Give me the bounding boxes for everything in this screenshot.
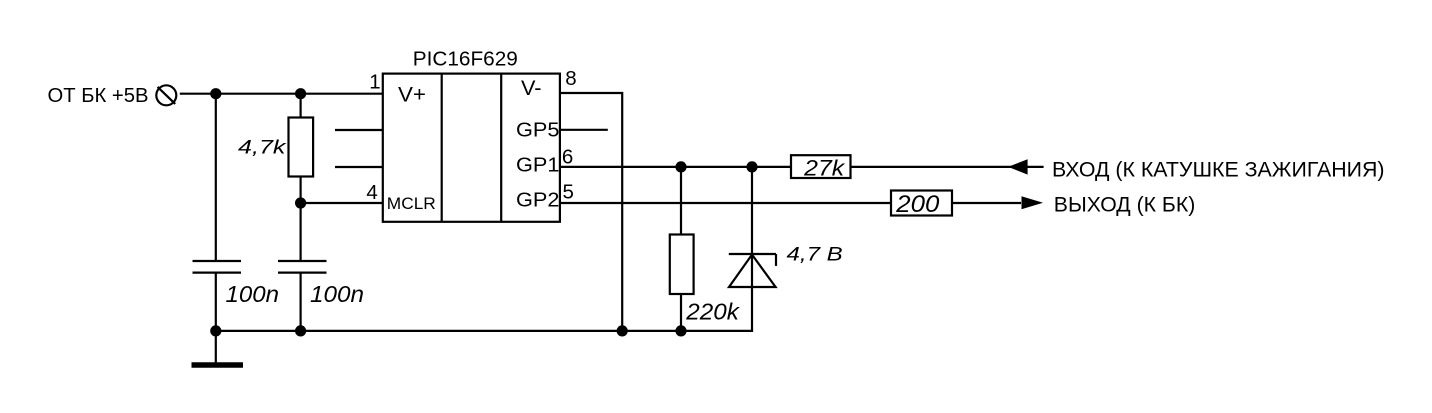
wire: bottom ground rail bbox=[216, 330, 753, 332]
wire: vertical from GP1 junction down to R3 220k bbox=[680, 167, 682, 235]
ground symbol bbox=[192, 331, 244, 365]
svg-text:GP2: GP2 bbox=[516, 188, 560, 211]
wire: GP1 pin 6 from IC to 27k resistor bbox=[560, 166, 792, 168]
resistor R3 220k (vertical box) bbox=[670, 235, 694, 295]
wire: GP1 line from 27k to input arrow bbox=[851, 166, 1044, 168]
wire: unconnected stub pin left upper bbox=[335, 129, 384, 131]
svg-text:V+: V+ bbox=[398, 83, 426, 106]
svg-text:1: 1 bbox=[369, 70, 380, 93]
node: junction dot at MCLR / R1 bottom bbox=[295, 197, 306, 208]
svg-text:8: 8 bbox=[565, 67, 576, 90]
wire: R3 bottom to ground rail bbox=[680, 294, 682, 331]
resistor R1 4,7k (vertical box) bbox=[289, 118, 314, 177]
svg-text:4,7k: 4,7k bbox=[238, 137, 287, 158]
node: junction dot rail / C2 bbox=[295, 325, 306, 336]
wire: unconnected stub pin left lower bbox=[335, 166, 384, 168]
connector X1 (+5V input terminal circle) bbox=[156, 85, 176, 105]
node: junction dot GP1 / zener bbox=[746, 161, 757, 172]
svg-text:ОТ БК +5В: ОТ БК +5В bbox=[48, 84, 149, 107]
node: junction dot rail / V- vertical bbox=[617, 325, 628, 336]
svg-text:200: 200 bbox=[895, 191, 940, 218]
svg-text:V-: V- bbox=[521, 77, 542, 100]
svg-text:27k: 27k bbox=[803, 155, 846, 180]
arrowhead: output arrow (points right) bbox=[1022, 196, 1044, 209]
svg-text:ВЫХОД (К БК): ВЫХОД (К БК) bbox=[1054, 194, 1196, 217]
wire: V- pin 8 from IC to right vertical bbox=[560, 93, 623, 331]
wire row A: +5V from connector to pin 1 bbox=[180, 93, 384, 95]
svg-text:PIC16F629: PIC16F629 bbox=[413, 48, 518, 70]
wire: GP5 stub bbox=[560, 129, 608, 131]
arrowhead: input arrow (points left) bbox=[1008, 159, 1028, 174]
wire: left vertical from +5V rail down to C1 top plate bbox=[215, 94, 217, 261]
svg-text:6: 6 bbox=[562, 145, 573, 168]
wire: vertical from +5V rail down to R1 top bbox=[300, 94, 302, 118]
IC U1 PIC16F629 body bbox=[383, 74, 560, 222]
wire: C2 bottom plate to ground rail bbox=[300, 273, 302, 331]
wire: GP2 pin 5 from IC to 200 resistor bbox=[560, 202, 892, 204]
svg-text:MCLR: MCLR bbox=[387, 194, 436, 213]
wire: R1 bottom to MCLR junction and down to C2 top plate bbox=[300, 177, 302, 262]
capacitor C1 100n bbox=[193, 261, 242, 273]
svg-text:ВХОД (К КАТУШКЕ ЗАЖИГАНИЯ): ВХОД (К КАТУШКЕ ЗАЖИГАНИЯ) bbox=[1052, 158, 1385, 181]
capacitor C2 100n bbox=[278, 261, 327, 273]
wire: zener anode down to ground rail corner bbox=[751, 287, 753, 331]
resistor R4 200 (inline box) bbox=[891, 191, 952, 216]
svg-text:GP5: GP5 bbox=[516, 119, 560, 142]
svg-text:100n: 100n bbox=[310, 281, 364, 307]
wire: vertical from GP1 junction down to zener VD1 bbox=[751, 167, 753, 287]
wire: MCLR pin 4 from junction to IC bbox=[301, 202, 384, 204]
svg-text:4: 4 bbox=[366, 181, 377, 204]
wire: GP2 line from 200 box to output arrow bbox=[952, 202, 1021, 204]
svg-text:5: 5 bbox=[563, 180, 574, 203]
svg-text:4,7 В: 4,7 В bbox=[787, 244, 844, 265]
node: junction dot at +5V / R1 top bbox=[295, 88, 306, 99]
resistor R2 27k (inline box) bbox=[791, 155, 851, 178]
wire: C1 bottom plate to ground rail bbox=[215, 273, 217, 331]
svg-text:220k: 220k bbox=[685, 298, 740, 324]
node: junction dot rail / ground bbox=[210, 325, 221, 336]
node: junction dot at +5V / left vertical bbox=[210, 88, 221, 99]
svg-text:GP1: GP1 bbox=[516, 153, 560, 176]
zener diode VD1 4,7 V bbox=[729, 254, 776, 287]
node: junction dot rail / 220k bottom bbox=[675, 325, 686, 336]
node: junction dot GP1 / 220k bbox=[675, 161, 686, 172]
svg-text:100n: 100n bbox=[226, 281, 280, 307]
